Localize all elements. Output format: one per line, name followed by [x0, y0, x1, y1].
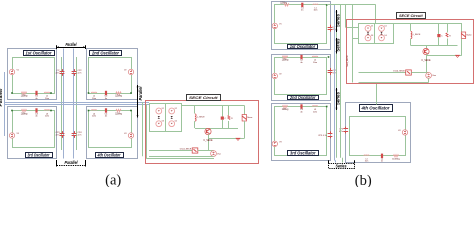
svg-text:D2: D2	[175, 108, 177, 110]
svg-text:110Meg: 110Meg	[21, 112, 28, 115]
svg-text:D4: D4	[175, 121, 177, 123]
svg-text:V4: V4	[398, 130, 400, 132]
svg-text:D2: D2	[385, 25, 387, 27]
svg-text:SECE Circuit: SECE Circuit	[189, 95, 218, 100]
svg-text:2nd Oscillator: 2nd Oscillator	[289, 95, 316, 100]
svg-text:Parallel: Parallel	[65, 160, 79, 165]
svg-text:4n: 4n	[300, 62, 303, 64]
svg-text:3rd Oscillator: 3rd Oscillator	[28, 152, 50, 157]
svg-text:Vsw: Vsw	[432, 75, 436, 77]
svg-text:110Meg: 110Meg	[280, 1, 287, 4]
svg-text:10m: 10m	[45, 116, 49, 118]
svg-text:SECE Circuit: SECE Circuit	[399, 13, 423, 18]
svg-text:4n: 4n	[300, 111, 303, 113]
svg-text:(a): (a)	[105, 172, 121, 187]
svg-text:Parallel: Parallel	[0, 88, 4, 107]
svg-text:110Meg: 110Meg	[392, 158, 401, 160]
svg-text:C_SECE: C_SECE	[203, 140, 213, 142]
svg-text:Series: Series	[336, 38, 341, 51]
svg-text:10m: 10m	[313, 111, 317, 113]
svg-text:Name: Name	[247, 117, 252, 119]
svg-text:V1: V1	[279, 24, 281, 26]
svg-text:3rd Oscillator: 3rd Oscillator	[290, 150, 316, 155]
svg-text:L_SECE: L_SECE	[197, 117, 205, 119]
svg-text:4n: 4n	[105, 116, 108, 118]
svg-text:timed_SECE: timed_SECE	[180, 148, 192, 151]
svg-text:R: R	[231, 118, 233, 120]
svg-text:C: C	[225, 118, 227, 120]
svg-text:Vsw: Vsw	[217, 153, 221, 155]
svg-text:V3: V3	[279, 142, 281, 144]
svg-text:Parallel: Parallel	[138, 86, 144, 101]
svg-text:4th Oscillator: 4th Oscillator	[97, 152, 121, 157]
svg-text:CP3 4.7n: CP3 4.7n	[318, 135, 328, 137]
svg-text:10m: 10m	[92, 98, 96, 100]
svg-text:1st Oscillator: 1st Oscillator	[290, 44, 316, 49]
svg-text:1st Oscillator: 1st Oscillator	[26, 51, 52, 56]
svg-text:timed_SECE: timed_SECE	[393, 70, 405, 73]
svg-text:(b): (b)	[355, 173, 372, 187]
svg-text:4th Oscillator: 4th Oscillator	[360, 105, 389, 110]
svg-text:110Meg: 110Meg	[282, 59, 289, 62]
svg-text:2nd Oscillator: 2nd Oscillator	[91, 51, 119, 56]
svg-text:4.7n: 4.7n	[78, 135, 83, 137]
svg-text:Parallel: Parallel	[66, 42, 78, 47]
svg-text:10m: 10m	[313, 62, 317, 64]
svg-text:R: R	[449, 36, 451, 38]
svg-text:D3: D3	[371, 35, 373, 37]
svg-text:4n: 4n	[381, 161, 383, 163]
svg-text:C: C	[441, 36, 443, 38]
svg-text:110Meg: 110Meg	[21, 95, 28, 98]
svg-text:4.7n: 4.7n	[339, 131, 343, 133]
svg-text:10m: 10m	[45, 98, 49, 100]
svg-text:D1: D1	[162, 108, 164, 110]
svg-text:D3: D3	[162, 121, 164, 123]
svg-text:Series: Series	[336, 92, 341, 105]
svg-text:D1: D1	[371, 25, 373, 27]
svg-text:C_SECE: C_SECE	[421, 60, 431, 62]
svg-text:4.7n: 4.7n	[78, 73, 83, 75]
svg-text:V2: V2	[124, 70, 126, 72]
svg-text:V3: V3	[17, 133, 19, 135]
svg-text:V4: V4	[124, 133, 126, 135]
svg-text:110Meg: 110Meg	[115, 95, 122, 98]
svg-text:110Meg: 110Meg	[282, 108, 289, 111]
svg-text:4n: 4n	[301, 10, 304, 12]
svg-text:110Meg: 110Meg	[115, 112, 122, 115]
svg-text:L_SECE: L_SECE	[413, 34, 421, 36]
svg-text:4n: 4n	[35, 116, 38, 118]
svg-text:10m: 10m	[92, 116, 96, 118]
svg-text:10m: 10m	[313, 10, 317, 12]
svg-text:Name: Name	[467, 35, 472, 37]
svg-text:V2: V2	[279, 74, 281, 76]
svg-text:Series: Series	[336, 14, 341, 27]
svg-text:10m: 10m	[365, 161, 369, 163]
svg-text:D4: D4	[385, 35, 387, 37]
svg-text:Series: Series	[336, 164, 347, 169]
svg-text:load_SECE: load_SECE	[347, 55, 349, 67]
svg-text:V1: V1	[17, 70, 19, 72]
